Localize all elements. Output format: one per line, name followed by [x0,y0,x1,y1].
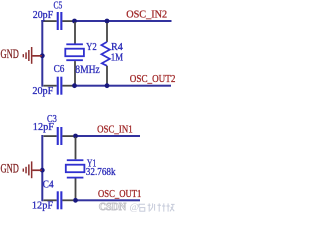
wire: bottom rail horizontal (top circuit) [74,85,172,87]
body [65,49,84,57]
zigzag [101,42,109,66]
pin left of C3 [44,135,57,137]
svg-text:32.768k: 32.768k [86,166,116,178]
plate bottom [67,177,84,179]
pin right of C3 [62,135,73,137]
pin bottom [75,179,77,200]
pin left of C5 [44,20,57,22]
pin bottom [74,61,76,85]
svg-text:C6: C6 [54,63,65,75]
node: junction at R4 bottom [105,83,110,88]
pin bottom [106,66,108,85]
svg-text:@: @ [130,203,140,213]
plates [57,12,59,30]
wire: C5 left stub (blue corner bit) [41,20,44,22]
svg-text:C4: C4 [43,179,54,191]
svg-text:GND: GND [1,160,19,175]
wire: top rail corner + riser (left vertical wire) [41,20,43,87]
wire: riser (left vertical wire, bottom circuit) [41,135,43,201]
node: junction at crystal Y1 top [73,134,78,139]
svg-text:20pF: 20pF [32,85,53,97]
svg-text:OSC_OUT1: OSC_OUT1 [98,189,141,200]
svg-text:OSC_IN2: OSC_IN2 [126,9,167,21]
pin left of C6 [44,85,57,87]
node: junction at crystal top [72,19,77,24]
plate bottom [66,59,83,61]
svg-text:12pF: 12pF [32,199,53,211]
svg-text:OSC_OUT2: OSC_OUT2 [130,73,176,85]
wire: top rail horizontal (bottom circuit) [75,135,141,137]
svg-text:C5: C5 [54,0,63,12]
pin right of C6 [62,85,73,87]
capacitor C5 [44,12,74,30]
pin right of C4 [62,199,73,201]
svg-text:8MHz: 8MHz [75,64,100,76]
pin top [106,23,108,42]
svg-text:12pF: 12pF [33,121,54,133]
resistor R4 [101,23,109,85]
svg-text:20pF: 20pF [33,9,53,21]
svg-text:CSDN: CSDN [99,202,127,213]
svg-text:Y2: Y2 [86,41,97,53]
svg-text:OSC_IN1: OSC_IN1 [97,125,133,136]
body [66,165,85,173]
plate top [67,159,84,161]
watermark CSDN [99,202,175,213]
crystal Y2 [65,22,84,85]
pin left of C4 [44,199,57,201]
capacitor C3 [44,127,74,145]
capacitor C6 [44,77,74,95]
node: junction at crystal Y1 bottom [73,198,78,203]
svg-text:1M: 1M [111,51,124,63]
ground GND (bottom) [23,161,45,178]
wire: top rail horizontal [74,20,172,22]
plate top [66,43,83,45]
svg-text:GND: GND [1,46,19,61]
capacitor C4 [44,191,74,209]
ground GND (top) [23,47,45,64]
pin right of C5 [62,20,73,22]
wire: bottom rail horizontal (bottom circuit) [75,199,141,201]
node: junction at crystal bottom [72,83,77,88]
node: junction at R4 top [105,19,110,24]
pin top [75,137,77,159]
crystal Y1 [66,137,85,200]
pin top [74,22,76,44]
